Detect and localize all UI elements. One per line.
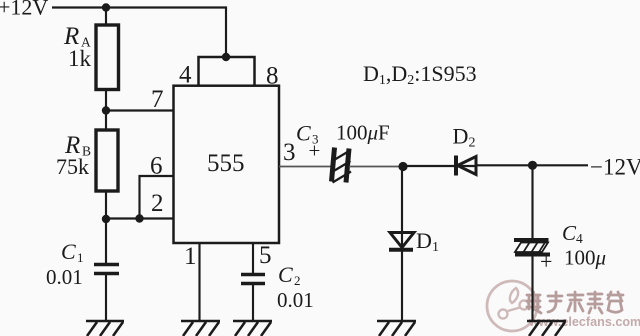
watermark logo	[487, 281, 537, 331]
svg-text:+: +	[540, 249, 552, 274]
svg-text:+: +	[309, 139, 321, 163]
svg-text:0.01: 0.01	[277, 288, 314, 312]
svg-text:1: 1	[432, 240, 439, 255]
watermark text	[527, 292, 623, 313]
wire RA to node	[105, 90, 107, 111]
wire pin 7	[106, 109, 174, 111]
capacitor C3	[332, 148, 352, 183]
wire to RA	[105, 8, 107, 26]
svg-text:D: D	[416, 228, 432, 253]
svg-text:C: C	[278, 262, 293, 287]
node junction RB/C1/pin2	[102, 215, 110, 223]
svg-text:4: 4	[576, 231, 583, 246]
svg-text:75k: 75k	[56, 154, 89, 179]
wire node to RB	[105, 111, 107, 131]
svg-text:100μF: 100μF	[336, 121, 390, 145]
svg-text:100μ: 100μ	[564, 246, 606, 270]
capacitor C2	[241, 275, 265, 284]
wire node to D2	[403, 165, 476, 167]
node junction C3/D1/D2	[398, 162, 407, 171]
diode D1	[389, 233, 414, 250]
wire D1 to ground	[401, 250, 403, 321]
wire D2 to output node	[476, 164, 533, 166]
svg-text:5: 5	[259, 242, 272, 269]
capacitor C1	[94, 265, 119, 274]
wire to -12V	[533, 164, 589, 166]
op-amp U1 555 timer box	[174, 86, 280, 243]
svg-text:+12V: +12V	[0, 0, 48, 20]
wire RB to node	[105, 191, 107, 219]
wire node to C4	[531, 165, 533, 238]
svg-text:2: 2	[469, 136, 476, 151]
svg-text:8: 8	[266, 63, 279, 90]
svg-text:2: 2	[294, 273, 301, 288]
svg-text:0.01: 0.01	[46, 265, 83, 289]
svg-text:−12V: −12V	[590, 155, 640, 180]
node junction supply to bracket	[222, 53, 230, 61]
svg-text:D: D	[453, 124, 469, 149]
wire top rail	[52, 8, 226, 58]
node junction RA/RB/pin7	[102, 106, 110, 114]
node junction pin6 loop	[135, 214, 143, 222]
wire pin 1 to ground	[198, 243, 200, 321]
diode D2	[456, 156, 476, 176]
svg-text:555: 555	[207, 150, 245, 177]
svg-text:C: C	[562, 221, 577, 245]
resistor RB	[96, 130, 118, 191]
svg-text:1k: 1k	[68, 46, 92, 71]
wire pin 6 loop	[140, 176, 174, 219]
svg-text:3: 3	[283, 139, 296, 166]
ground for C1	[86, 321, 124, 336]
wire node to D1	[401, 167, 403, 250]
wire pin 3 output	[279, 166, 332, 168]
resistor RA	[96, 25, 119, 90]
wire C3 to node	[349, 166, 403, 168]
svg-text:1: 1	[77, 250, 84, 265]
svg-text:4: 4	[179, 62, 192, 89]
node junction at RA top	[102, 3, 110, 11]
ground for C4	[527, 321, 566, 336]
svg-text:C: C	[61, 239, 76, 264]
wire node to C1	[105, 219, 107, 263]
wire pin 5 to C2	[252, 243, 254, 274]
wire C1 to ground	[105, 274, 107, 322]
wire C4 to ground	[531, 255, 533, 322]
svg-text:1: 1	[184, 243, 197, 270]
svg-text:7: 7	[151, 86, 164, 113]
ground for D1	[377, 321, 416, 336]
wire pin 2	[106, 217, 174, 219]
svg-text:2: 2	[151, 190, 164, 217]
wire pins 4-8 bracket	[199, 57, 255, 86]
svg-text:6: 6	[150, 153, 163, 180]
node junction D2/C4/output	[528, 161, 537, 170]
ground for pin 1	[181, 321, 220, 336]
wire C2 to ground	[252, 284, 254, 322]
capacitor C4	[514, 240, 550, 255]
ground for C2	[233, 321, 272, 336]
